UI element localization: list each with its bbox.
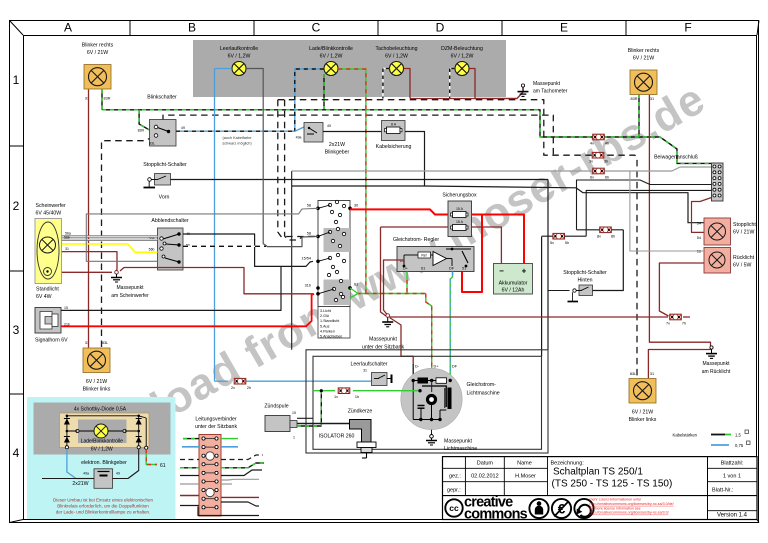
svg-text:15: 15 xyxy=(292,411,296,415)
svg-text:Blinkgeber: Blinkgeber xyxy=(325,150,350,156)
svg-text:Leitungsverbinder: Leitungsverbinder xyxy=(195,417,237,423)
svg-text:Blinker links: Blinker links xyxy=(629,417,657,423)
svg-text:C: C xyxy=(312,21,321,35)
svg-text:02.02.2012: 02.02.2012 xyxy=(471,474,499,480)
svg-text:am Rücklicht: am Rücklicht xyxy=(702,369,731,375)
svg-text:Leerlaufschalter: Leerlaufschalter xyxy=(351,362,388,368)
svg-text:D: D xyxy=(436,21,445,35)
svg-text:Blinkschalter: Blinkschalter xyxy=(147,95,177,101)
svg-text:unter der Sitzbank: unter der Sitzbank xyxy=(195,424,238,430)
svg-text:Kabelstärken: Kabelstärken xyxy=(673,433,698,438)
svg-text:Blattzahl:: Blattzahl: xyxy=(721,461,744,467)
svg-text:6V / 21W: 6V / 21W xyxy=(87,50,108,56)
svg-text:15 A: 15 A xyxy=(456,207,464,211)
svg-text:30: 30 xyxy=(354,204,358,208)
svg-text:DF: DF xyxy=(452,365,458,369)
svg-text:DZM-Beleuchtung: DZM-Beleuchtung xyxy=(441,46,483,52)
svg-text:H.Moser: H.Moser xyxy=(515,474,536,480)
svg-text:6V / 21W: 6V / 21W xyxy=(733,230,754,236)
svg-text:ISOLATOR 260: ISOLATOR 260 xyxy=(319,434,355,440)
svg-text:83R: 83R xyxy=(631,97,638,101)
svg-text:1,5: 1,5 xyxy=(735,433,741,438)
svg-text:Blinker links: Blinker links xyxy=(83,387,111,393)
svg-text:DF: DF xyxy=(449,267,455,271)
svg-text:4: 4 xyxy=(13,446,20,460)
svg-text:54: 54 xyxy=(697,236,701,240)
svg-text:Sicherungsbox: Sicherungsbox xyxy=(442,193,477,199)
svg-text:2x21W: 2x21W xyxy=(329,142,345,148)
svg-text:6V / 21W: 6V / 21W xyxy=(632,410,653,416)
svg-text:5.Anschieben: 5.Anschieben xyxy=(320,335,342,339)
svg-text:5.Aus: 5.Aus xyxy=(320,324,330,328)
svg-text:8v: 8v xyxy=(597,235,601,239)
svg-text:3v: 3v xyxy=(589,160,593,164)
svg-text:61: 61 xyxy=(421,267,425,271)
svg-text:Massepunkt: Massepunkt xyxy=(444,439,473,445)
svg-text:61: 61 xyxy=(354,283,358,287)
svg-text:6v: 6v xyxy=(590,176,594,180)
svg-text:Rücklicht: Rücklicht xyxy=(733,255,755,261)
svg-text:B: B xyxy=(188,21,196,35)
svg-text:1h: 1h xyxy=(355,395,359,399)
svg-text:2h: 2h xyxy=(247,386,251,390)
svg-text:Beiwagenanschluß: Beiwagenanschluß xyxy=(654,155,698,161)
svg-text:31: 31 xyxy=(650,372,654,376)
svg-text:cc: cc xyxy=(449,503,459,513)
svg-text:gepr.:: gepr.: xyxy=(447,488,461,494)
svg-text:49a: 49a xyxy=(296,136,302,140)
svg-text:http://creativecommons.org/lic: http://creativecommons.org/licenses/by-n… xyxy=(590,502,674,506)
svg-text:1v: 1v xyxy=(334,395,338,399)
svg-text:commons: commons xyxy=(464,507,528,523)
svg-text:83R: 83R xyxy=(104,97,111,101)
svg-text:83L: 83L xyxy=(630,372,636,376)
svg-text:Lichtmaschine: Lichtmaschine xyxy=(467,391,500,397)
svg-text:Lade/Blinkkontrolle: Lade/Blinkkontrolle xyxy=(309,46,353,52)
svg-text:1: 1 xyxy=(293,436,295,440)
svg-text:Abblendschalter: Abblendschalter xyxy=(151,218,188,224)
svg-text:49a: 49a xyxy=(83,472,89,476)
svg-text:Standlicht: Standlicht xyxy=(36,287,59,293)
svg-text:−: − xyxy=(499,267,504,276)
svg-text:Massepunkt: Massepunkt xyxy=(703,361,731,367)
svg-text:Blatt-Nr.:: Blatt-Nr.: xyxy=(712,488,734,494)
svg-text:6V / 12Ah: 6V / 12Ah xyxy=(502,288,525,294)
svg-text:am Tachometer: am Tachometer xyxy=(533,89,568,95)
svg-text:Scheinwerfer: Scheinwerfer xyxy=(36,203,67,209)
svg-text:49: 49 xyxy=(181,126,185,130)
svg-text:1: 1 xyxy=(13,73,20,87)
svg-text:4v: 4v xyxy=(590,142,594,146)
svg-text:2.Glü: 2.Glü xyxy=(320,314,329,318)
svg-text:6h: 6h xyxy=(605,176,609,180)
svg-text:7h: 7h xyxy=(682,322,686,326)
svg-text:4h: 4h xyxy=(605,142,609,146)
svg-text:Gleichstrom- Regler: Gleichstrom- Regler xyxy=(393,237,439,243)
svg-text:31: 31 xyxy=(363,369,367,373)
svg-text:3: 3 xyxy=(13,323,20,337)
svg-text:31: 31 xyxy=(65,247,69,251)
svg-text:Stopplicht: Stopplicht xyxy=(733,222,756,228)
svg-text:Zündkerze: Zündkerze xyxy=(348,409,373,415)
svg-text:D+: D+ xyxy=(434,365,440,369)
svg-text:1.Standlicht: 1.Standlicht xyxy=(320,319,339,323)
svg-text:3.Licht: 3.Licht xyxy=(320,309,331,313)
svg-text:F: F xyxy=(684,21,691,35)
svg-text:Schaltplan TS 250/1: Schaltplan TS 250/1 xyxy=(553,467,643,478)
svg-text:Datum: Datum xyxy=(477,461,494,467)
svg-text:2: 2 xyxy=(13,199,20,213)
svg-text:58: 58 xyxy=(307,232,311,236)
svg-text:Signalhorn 6V: Signalhorn 6V xyxy=(35,338,68,344)
svg-text:5v: 5v xyxy=(550,241,554,245)
svg-text:(TS 250 - TS 125 - TS 150): (TS 250 - TS 125 - TS 150) xyxy=(552,479,673,490)
svg-text:Gleichstrom-: Gleichstrom- xyxy=(467,382,497,388)
svg-text:31b: 31b xyxy=(305,284,311,288)
svg-text:5h: 5h xyxy=(565,241,569,245)
svg-text:15: 15 xyxy=(64,306,68,310)
svg-text:6V / 5W: 6V / 5W xyxy=(733,263,752,269)
svg-text:Akkumulator: Akkumulator xyxy=(499,281,528,287)
svg-text:6V / 1,2W: 6V / 1,2W xyxy=(385,54,408,60)
svg-text:Kabelsicherung: Kabelsicherung xyxy=(376,144,412,150)
svg-text:Vorn: Vorn xyxy=(159,195,170,201)
svg-text:Lichtmaschine: Lichtmaschine xyxy=(444,446,477,452)
svg-text:E: E xyxy=(560,21,568,35)
svg-text:6V / 21W: 6V / 21W xyxy=(86,379,107,385)
svg-text:Massepunkt: Massepunkt xyxy=(117,285,145,291)
svg-text:Stopplicht-Schalter: Stopplicht-Schalter xyxy=(143,162,187,168)
svg-text:2v: 2v xyxy=(231,386,235,390)
svg-text:Blinker rechts: Blinker rechts xyxy=(82,43,114,49)
svg-text:54: 54 xyxy=(697,222,701,226)
svg-text:7v: 7v xyxy=(666,322,670,326)
svg-text:Ref: Ref xyxy=(421,254,426,258)
svg-text:4x Schottky-Diode 0,5A: 4x Schottky-Diode 0,5A xyxy=(74,407,127,413)
svg-text:1 von 1: 1 von 1 xyxy=(723,474,741,480)
svg-text:3h: 3h xyxy=(604,160,608,164)
svg-text:83L: 83L xyxy=(149,141,155,145)
svg-text:am Scheinwerfer: am Scheinwerfer xyxy=(111,293,149,299)
svg-text:Version 1.4: Version 1.4 xyxy=(717,513,748,519)
svg-text:15 A: 15 A xyxy=(456,220,464,224)
svg-text:schwarz möglich): schwarz möglich) xyxy=(222,142,252,146)
svg-text:8 A: 8 A xyxy=(391,123,397,127)
svg-text:elektron. Blinkgeber: elektron. Blinkgeber xyxy=(81,460,127,466)
svg-text:58: 58 xyxy=(307,204,311,208)
svg-text:http://creativecommons.org/lic: http://creativecommons.org/licenses/by-n… xyxy=(590,511,669,515)
svg-text:Tachobeleuchtung: Tachobeleuchtung xyxy=(375,46,417,52)
svg-text:Massepunkt: Massepunkt xyxy=(369,337,398,343)
svg-text:6V 4W: 6V 4W xyxy=(36,294,52,300)
svg-text:(auch Kabelfarbe: (auch Kabelfarbe xyxy=(223,136,252,140)
svg-text:2x21W: 2x21W xyxy=(72,481,88,487)
svg-text:49: 49 xyxy=(327,124,331,128)
svg-text:+: + xyxy=(522,267,527,276)
svg-text:6V / 1,2W: 6V / 1,2W xyxy=(91,447,113,453)
svg-text:Dieser Umbau ist bei Einsatz e: Dieser Umbau ist bei Einsatz eines elekt… xyxy=(53,498,154,503)
svg-text:6V / 1,2W: 6V / 1,2W xyxy=(451,54,474,60)
svg-text:A: A xyxy=(64,21,72,35)
svg-text:31: 31 xyxy=(650,97,654,101)
svg-text:83L: 83L xyxy=(102,341,108,345)
svg-text:gez.:: gez.: xyxy=(449,474,461,480)
svg-text:Zündspule: Zündspule xyxy=(264,404,288,410)
svg-text:83R: 83R xyxy=(138,129,145,133)
svg-text:der Lade- und Blinkerkontrolll: der Lade- und Blinkerkontrolllampe zu er… xyxy=(56,510,151,515)
svg-text:6V / 1,2W: 6V / 1,2W xyxy=(320,54,343,60)
svg-text:6V 45/40W: 6V 45/40W xyxy=(36,211,62,217)
svg-text:for more license information s: for more license information see xyxy=(590,506,641,510)
svg-text:56b: 56b xyxy=(149,248,155,252)
svg-text:Hinten: Hinten xyxy=(578,278,593,284)
svg-text:49: 49 xyxy=(116,472,120,476)
svg-text:56b: 56b xyxy=(64,236,70,240)
svg-text:Massepunkt: Massepunkt xyxy=(533,81,561,87)
svg-text:Blinker rechts: Blinker rechts xyxy=(628,48,660,54)
svg-text:15/54: 15/54 xyxy=(301,257,311,261)
svg-text:0,75: 0,75 xyxy=(735,443,744,448)
svg-text:6V / 21W: 6V / 21W xyxy=(633,56,654,62)
svg-text:61: 61 xyxy=(160,463,166,469)
svg-text:4.Parken: 4.Parken xyxy=(320,329,335,333)
svg-text:Leerlaufkontrolle: Leerlaufkontrolle xyxy=(220,46,258,52)
svg-text:Stopplicht-Schalter: Stopplicht-Schalter xyxy=(563,270,607,276)
svg-text:Blinkrelais erforderlich, um d: Blinkrelais erforderlich, um die Doppelf… xyxy=(57,504,149,509)
svg-text:8h: 8h xyxy=(611,235,615,239)
svg-text:Name: Name xyxy=(517,461,532,467)
svg-text:mehr Lizenz-Informationen unte: mehr Lizenz-Informationen unter xyxy=(590,498,643,502)
svg-text:Lade/Blinkkontrolle: Lade/Blinkkontrolle xyxy=(81,439,123,445)
svg-text:6V / 1,2W: 6V / 1,2W xyxy=(228,54,251,60)
